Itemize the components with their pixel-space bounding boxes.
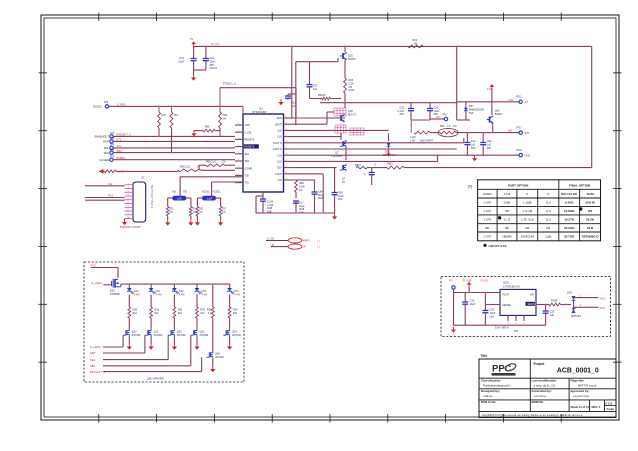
svg-text:C32: C32 bbox=[550, 310, 555, 314]
svg-text:R030: R030 bbox=[551, 299, 558, 303]
svg-text:T30: T30 bbox=[245, 175, 250, 178]
svg-text:PV: PV bbox=[190, 38, 194, 41]
svg-text:11aB: 11aB bbox=[545, 235, 551, 239]
svg-text:d dmg, dg 11, 111: d dmg, dg 11, 111 bbox=[534, 383, 556, 387]
svg-text:R06 11.0: R06 11.0 bbox=[206, 160, 217, 163]
svg-text:Copyright(c) 11 rights reserve: Copyright(c) 11 rights reserved. a/n tra… bbox=[482, 414, 583, 417]
svg-text:10uF: 10uF bbox=[178, 60, 184, 63]
svg-text:2N7002: 2N7002 bbox=[154, 334, 163, 337]
svg-text:DX: DX bbox=[588, 209, 592, 213]
svg-text:LED DRIVER: LED DRIVER bbox=[147, 377, 164, 381]
svg-text:12.8GB: 12.8GB bbox=[564, 209, 575, 213]
svg-text:25V: 25V bbox=[471, 147, 476, 150]
svg-text:10uF: 10uF bbox=[470, 302, 476, 306]
svg-text:Designed by:: Designed by: bbox=[481, 389, 500, 393]
svg-text:FGNT: FGNT bbox=[275, 173, 282, 176]
svg-text:4.4W: 4.4W bbox=[234, 293, 240, 296]
svg-text:50M: 50M bbox=[177, 198, 181, 200]
svg-text:KB: KB bbox=[172, 191, 176, 194]
svg-text:ENBLBTT_1: ENBLBTT_1 bbox=[117, 133, 132, 137]
svg-text:910: 910 bbox=[200, 312, 205, 315]
svg-text:CHART: CHART bbox=[483, 192, 493, 196]
svg-text:LTV8158-A3: LTV8158-A3 bbox=[503, 285, 520, 289]
svg-text:DVN: DVN bbox=[277, 117, 282, 120]
svg-text:BAT: BAT bbox=[508, 130, 513, 133]
svg-text:Classification: Classification bbox=[481, 379, 501, 383]
svg-text:Code: Code bbox=[607, 407, 615, 411]
svg-text:NOFIT: NOFIT bbox=[210, 67, 218, 70]
svg-text:BLA 07: BLA 07 bbox=[348, 113, 357, 116]
svg-text:RESET8: RESET8 bbox=[245, 139, 255, 142]
svg-text:Preliminary/approval 1: Preliminary/approval 1 bbox=[483, 383, 511, 387]
svg-text:5V6: 5V6 bbox=[469, 112, 474, 115]
svg-text:ULF: ULF bbox=[277, 130, 282, 133]
svg-text:S_GB: S_GB bbox=[267, 238, 274, 241]
svg-text:25.2GB: 25.2GB bbox=[564, 226, 575, 230]
svg-text:REV: 1: REV: 1 bbox=[592, 405, 601, 409]
svg-text:2N7002: 2N7002 bbox=[177, 334, 186, 337]
svg-text:3CH W: 3CH W bbox=[585, 200, 595, 204]
svg-text:BC807: BC807 bbox=[495, 113, 503, 116]
svg-text:Page title: Page title bbox=[571, 379, 585, 383]
svg-text:5.0V VER N: 5.0V VER N bbox=[495, 326, 509, 330]
svg-text:1W: 1W bbox=[414, 42, 418, 45]
svg-text:PV5: PV5 bbox=[90, 263, 96, 267]
svg-text:DLF: DLF bbox=[277, 167, 282, 170]
svg-text:TP4: TP4 bbox=[110, 145, 115, 147]
svg-text:R015: R015 bbox=[387, 163, 393, 166]
svg-text:NBdDB: NBdDB bbox=[503, 235, 512, 239]
svg-text:SLC: SLC bbox=[600, 297, 605, 301]
svg-text:ST10LG_U: ST10LG_U bbox=[223, 82, 236, 86]
svg-text:10uF: 10uF bbox=[490, 311, 496, 315]
svg-text:D C B: D C B bbox=[606, 402, 613, 405]
svg-text:BT1: BT1 bbox=[117, 138, 122, 142]
svg-text:approved by:: approved by: bbox=[571, 389, 590, 393]
svg-text:910: 910 bbox=[154, 312, 159, 315]
svg-text:11dB: 11dB bbox=[504, 200, 510, 204]
svg-text:DB.: DB. bbox=[485, 226, 490, 230]
svg-text:PCB Code: PCB Code bbox=[481, 400, 496, 404]
svg-text:1.71 GB: 1.71 GB bbox=[522, 209, 532, 213]
svg-text:1 S B: 1 S B bbox=[504, 192, 511, 196]
svg-text:910: 910 bbox=[178, 312, 183, 315]
svg-text:R11: R11 bbox=[169, 209, 174, 211]
svg-text:VOUT: VOUT bbox=[502, 293, 510, 297]
svg-text:DN: DN bbox=[436, 116, 440, 119]
svg-text:C30: C30 bbox=[470, 299, 475, 303]
svg-text:910: 910 bbox=[233, 312, 238, 315]
svg-text:ON: ON bbox=[530, 293, 534, 297]
svg-text:LV_GG: LV_GG bbox=[211, 42, 219, 46]
svg-text:4.4W: 4.4W bbox=[179, 293, 185, 296]
svg-text:C31: C31 bbox=[490, 308, 495, 312]
svg-text:NB: NB bbox=[505, 209, 509, 213]
svg-text:1.3R. GLB: 1.3R. GLB bbox=[521, 217, 534, 221]
svg-text:ULF: ULF bbox=[277, 161, 282, 164]
svg-text:R017: R017 bbox=[355, 164, 361, 167]
svg-text:T31: T31 bbox=[245, 182, 250, 185]
svg-text:D30: D30 bbox=[567, 290, 572, 294]
svg-text:4.4W: 4.4W bbox=[156, 293, 162, 296]
svg-text:1 GTA: 1 GTA bbox=[484, 200, 492, 204]
svg-text:2.5V: 2.5V bbox=[508, 99, 513, 102]
svg-text:ENABLED T: ENABLED T bbox=[95, 135, 110, 139]
svg-text:S_REG: S_REG bbox=[117, 102, 126, 106]
svg-text:910: 910 bbox=[133, 312, 138, 315]
svg-text:+ny.pnn nd.p.: +ny.pnn nd.p. bbox=[573, 394, 590, 398]
svg-text:SDA: SDA bbox=[104, 151, 110, 155]
svg-text:+Name,: +Name, bbox=[483, 394, 493, 398]
svg-text:TP5: TP5 bbox=[110, 149, 115, 151]
svg-text:CH GEN: CH GEN bbox=[99, 158, 109, 162]
svg-text:SLCEC: SLCEC bbox=[93, 104, 102, 108]
svg-text:ACB_0001_0: ACB_0001_0 bbox=[557, 368, 599, 375]
svg-text:XCELL: XCELL bbox=[213, 191, 222, 194]
svg-text:TP11: TP11 bbox=[516, 96, 522, 99]
svg-text:SB1: SB1 bbox=[245, 160, 250, 163]
svg-text:R06 11.0: R06 11.0 bbox=[180, 165, 191, 168]
svg-text:SENSE: SENSE bbox=[502, 303, 511, 307]
svg-text:LBP: LBP bbox=[90, 351, 95, 355]
svg-text:Controlled by:: Controlled by: bbox=[532, 389, 552, 393]
svg-text:S_LED2: S_LED2 bbox=[90, 345, 101, 349]
svg-text:XCELL: XCELL bbox=[202, 191, 211, 194]
svg-text:BC807: BC807 bbox=[348, 58, 356, 61]
svg-text:NO LTd GE: NO LTd GE bbox=[561, 192, 577, 196]
svg-text:Title: Title bbox=[481, 354, 488, 358]
svg-text:PWM&SD STAMP: PWM&SD STAMP bbox=[120, 226, 141, 229]
svg-text:HOP: HOP bbox=[103, 140, 109, 144]
svg-text:BAT54S: BAT54S bbox=[572, 314, 582, 318]
svg-text:1uF: 1uF bbox=[313, 88, 318, 91]
svg-text:11. B: 11. B bbox=[504, 217, 510, 221]
svg-text:GdUT D: GdUT D bbox=[273, 148, 282, 151]
svg-text:GND: GND bbox=[525, 153, 531, 157]
svg-text:1 GTA: 1 GTA bbox=[484, 217, 492, 221]
svg-text:DN: DN bbox=[514, 329, 518, 333]
svg-text:TP6: TP6 bbox=[442, 114, 447, 117]
svg-text:[X]: [X] bbox=[468, 185, 472, 189]
svg-text:SB1: SB1 bbox=[90, 364, 96, 368]
svg-text:PV: PV bbox=[449, 278, 453, 282]
svg-text:SLP: SLP bbox=[600, 306, 605, 310]
svg-text:2N7002: 2N7002 bbox=[215, 356, 224, 359]
svg-text:LIP: LIP bbox=[270, 244, 274, 247]
svg-text:11.d: 11.d bbox=[546, 217, 552, 221]
svg-text:SLIM: SLIM bbox=[586, 192, 594, 196]
svg-text:FL-INE: FL-INE bbox=[463, 278, 472, 282]
svg-text:25V: 25V bbox=[400, 113, 405, 116]
svg-text:S_LED1: S_LED1 bbox=[91, 281, 102, 285]
svg-text:25V: 25V bbox=[338, 198, 343, 201]
svg-text:COMB: COMB bbox=[245, 167, 253, 170]
svg-text:+nn.nnn.p.: +nn.nnn.p. bbox=[534, 394, 548, 398]
svg-text:SDA: SDA bbox=[117, 149, 123, 153]
svg-text:S: S bbox=[547, 192, 549, 196]
svg-text:7%: 7% bbox=[199, 212, 202, 214]
svg-text:T.GUT D: T.GUT D bbox=[272, 142, 282, 145]
svg-text:YO8: YO8 bbox=[245, 124, 251, 127]
svg-text:2N7002: 2N7002 bbox=[200, 334, 209, 337]
svg-text:19.2TH: 19.2TH bbox=[564, 217, 574, 221]
svg-text:TP16: TP16 bbox=[516, 149, 522, 152]
svg-text:TP6: TP6 bbox=[110, 157, 115, 159]
svg-text:50M: 50M bbox=[207, 198, 211, 200]
svg-text:SCL: SCL bbox=[104, 146, 110, 150]
svg-text:PLP: PLP bbox=[161, 114, 166, 117]
svg-text:4.4W: 4.4W bbox=[134, 293, 140, 296]
svg-text:1uF: 1uF bbox=[550, 313, 555, 317]
svg-text:6.4GB: 6.4GB bbox=[565, 200, 575, 204]
svg-text:BTSEN: BTSEN bbox=[117, 156, 126, 160]
svg-text:Project: Project bbox=[534, 362, 546, 366]
svg-text:OPENING D: OPENING D bbox=[582, 235, 600, 239]
svg-text:BFNT: BFNT bbox=[275, 123, 282, 126]
svg-text:C,: C, bbox=[364, 173, 367, 176]
svg-text:SEL: SEL bbox=[90, 358, 96, 362]
svg-text:PART OPTION: PART OPTION bbox=[508, 183, 528, 187]
svg-text:NB: NB bbox=[525, 226, 529, 230]
svg-text:53 B: 53 B bbox=[587, 226, 594, 230]
svg-text:17.d: 17.d bbox=[546, 209, 552, 213]
svg-text:STH5NB: STH5NB bbox=[110, 293, 120, 296]
svg-text:R0815: R0815 bbox=[318, 94, 326, 97]
svg-text:PP: PP bbox=[492, 364, 505, 375]
svg-text:F1-02: F1-02 bbox=[481, 278, 489, 282]
svg-text:D N: D N bbox=[278, 179, 283, 182]
svg-text:1%: 1% bbox=[222, 212, 225, 214]
svg-text:SHDN: SHDN bbox=[527, 302, 534, 306]
svg-text:4.4W: 4.4W bbox=[202, 293, 208, 296]
svg-text:11.d: 11.d bbox=[546, 200, 552, 204]
svg-text:SCL: SCL bbox=[117, 144, 123, 148]
svg-text:TP8: TP8 bbox=[104, 102, 109, 104]
svg-text:2N7002: 2N7002 bbox=[232, 334, 241, 337]
svg-text:FINAL OPTION: FINAL OPTION bbox=[569, 183, 590, 187]
svg-text:P: P bbox=[526, 192, 528, 196]
svg-text:PD3: PD3 bbox=[108, 195, 113, 198]
svg-text:1.6K: 1.6K bbox=[410, 139, 415, 142]
svg-text:LED BY 0.5V: LED BY 0.5V bbox=[489, 244, 507, 248]
svg-text:CLN: CLN bbox=[277, 136, 282, 139]
svg-text:MEPS: MEPS bbox=[303, 239, 310, 242]
svg-text:SEL: SEL bbox=[245, 153, 250, 156]
svg-text:DB: DB bbox=[183, 191, 187, 194]
svg-text:BATT07 circuit: BATT07 circuit bbox=[578, 383, 596, 387]
svg-text:TP17: TP17 bbox=[516, 126, 522, 129]
svg-text:0.6W: 0.6W bbox=[349, 89, 355, 92]
svg-text:16V: 16V bbox=[490, 315, 495, 319]
svg-text:PLP: PLP bbox=[174, 114, 179, 117]
svg-text:R11: R11 bbox=[199, 209, 204, 211]
svg-text:1.0: 1.0 bbox=[208, 312, 212, 315]
svg-text:100/ECHNl: 100/ECHNl bbox=[521, 235, 535, 239]
svg-text:1 GTA: 1 GTA bbox=[484, 209, 492, 213]
svg-text:7%: 7% bbox=[169, 212, 172, 214]
svg-text:R08: R08 bbox=[205, 125, 210, 128]
svg-text:RESET8: RESET8 bbox=[245, 146, 255, 149]
svg-text:BOM No: BOM No bbox=[532, 400, 544, 404]
svg-text:NB.: NB. bbox=[505, 226, 510, 230]
svg-text:R04: R04 bbox=[440, 125, 445, 128]
svg-text:B A T T E R Y P A C K: B A T T E R Y P A C K bbox=[150, 185, 153, 209]
svg-text:Sheet 11 of 11: Sheet 11 of 11 bbox=[571, 405, 590, 409]
svg-text:R17: R17 bbox=[222, 209, 227, 211]
svg-text:NB: NB bbox=[546, 226, 550, 230]
svg-text:N.N: N.N bbox=[278, 154, 283, 157]
svg-text:25V: 25V bbox=[487, 147, 492, 150]
svg-text:S12: S12 bbox=[108, 183, 113, 186]
svg-text:2N7002: 2N7002 bbox=[132, 334, 141, 337]
svg-text:ST10F168: ST10F168 bbox=[252, 110, 266, 114]
svg-text:Last modification: Last modification bbox=[532, 379, 557, 383]
svg-text:32.7GB: 32.7GB bbox=[564, 235, 575, 239]
svg-text:1.11dB: 1.11dB bbox=[523, 200, 532, 204]
svg-text:J2: J2 bbox=[141, 175, 144, 179]
svg-text:26.2K: 26.2K bbox=[586, 217, 595, 221]
svg-text:S_GB: S_GB bbox=[245, 131, 252, 134]
svg-text:TP2: TP2 bbox=[110, 133, 115, 135]
svg-text:LP: LP bbox=[303, 246, 306, 249]
svg-text:TP3: TP3 bbox=[110, 138, 115, 140]
svg-text:1 GTA: 1 GTA bbox=[484, 235, 492, 239]
svg-text:2.5: 2.5 bbox=[525, 100, 529, 104]
svg-text:0603 NOFIT: 0603 NOFIT bbox=[420, 139, 434, 142]
svg-text:BAT: BAT bbox=[525, 131, 530, 135]
